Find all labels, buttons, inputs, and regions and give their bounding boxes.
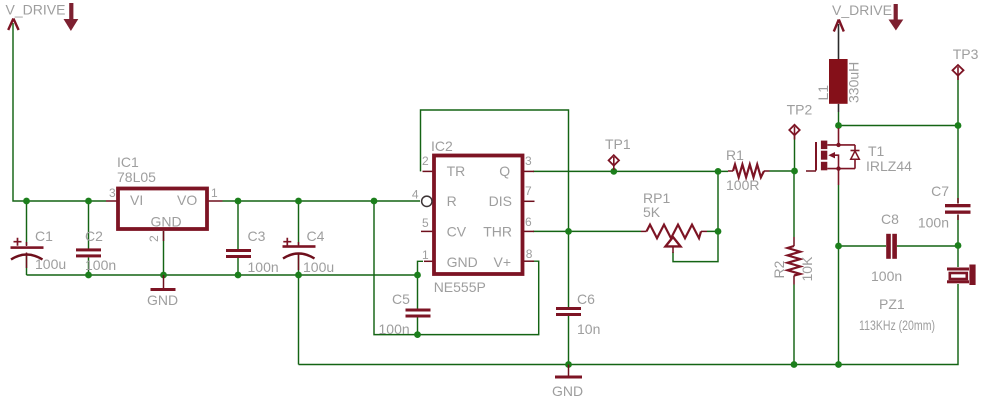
svg-text:GND: GND [447,254,478,270]
svg-text:10n: 10n [577,321,600,337]
capacitor C4 [283,228,335,275]
svg-text:7: 7 [525,184,532,198]
wire R1 to gate node [770,170,795,172]
wire source node to C8 left [839,245,887,247]
voltage regulator IC1 78L05 [106,154,223,242]
supply V_DRIVE right [832,2,892,32]
test point TP1 [605,136,631,170]
svg-text:GND: GND [151,214,182,230]
svg-text:R2: R2 [771,260,787,278]
svg-text:6: 6 [525,215,532,229]
ground symbol GND2 [552,365,583,400]
wire C4 top lead [298,201,300,245]
supply V_DRIVE left [6,2,66,31]
svg-text:V_DRIVE: V_DRIVE [832,2,892,18]
wire THR to C6 top [568,231,570,307]
svg-text:C1: C1 [35,228,53,244]
wire gate node to R2 top [793,171,795,237]
svg-text:TP1: TP1 [605,136,631,152]
inductor L1 [815,24,862,112]
svg-text:T1: T1 [868,143,885,159]
svg-text:DIS: DIS [489,193,512,209]
svg-text:5: 5 [422,216,429,230]
svg-text:4: 4 [412,188,419,202]
svg-text:C7: C7 [931,183,949,199]
wire GND rail [27,274,418,276]
wire 5V to V+ routing [374,201,539,335]
svg-text:1: 1 [211,186,218,200]
wire L1 bottom to drain node [838,112,840,126]
svg-text:C6: C6 [577,291,595,307]
wire V_DRIVE left riser and input rail [13,23,106,201]
svg-text:GND: GND [147,292,178,308]
wire bottom GND rail with right riser to PZ1 [299,284,959,365]
wire IC2 pin1 GND to rail and C5 top [418,261,424,308]
capacitor C3 [226,228,279,275]
svg-text:R1: R1 [726,147,744,163]
svg-text:100n: 100n [248,259,279,275]
svg-text:TP2: TP2 [787,102,813,118]
svg-text:100n: 100n [85,257,116,273]
ground symbol GND1 [147,275,178,308]
wire R2 bottom to GND rail [793,285,795,365]
wire IC1 GND pin to rail [163,231,165,275]
svg-text:V_DRIVE: V_DRIVE [6,2,66,18]
potentiometer RP1 [641,190,707,253]
wire C7 bottom to PZ1 top node [957,215,959,268]
wire Q output net [533,170,728,172]
svg-text:78L05: 78L05 [117,169,156,185]
svg-text:V+: V+ [493,254,511,270]
wire T1 source to GND rail [838,185,840,365]
svg-text:R: R [447,193,457,209]
svg-text:THR: THR [483,224,512,240]
svg-text:C8: C8 [881,211,899,227]
svg-text:100R: 100R [726,177,759,193]
svg-text:TR: TR [447,163,466,179]
wire THR net to RP1 [533,230,641,232]
wire C8 right to PZ1 node [897,245,958,247]
svg-text:2: 2 [422,154,429,168]
svg-text:TP3: TP3 [953,46,979,62]
svg-text:1: 1 [422,248,429,262]
piezo PZ1 [859,265,976,334]
capacitor C5 [379,291,431,337]
svg-text:CV: CV [447,224,467,240]
wire C3 bottom lead [237,258,239,275]
capacitor C6 [556,291,600,337]
wire TR feedback loop [421,110,569,231]
svg-text:GND: GND [552,383,583,399]
wire C2 bottom lead [88,258,90,276]
svg-text:3: 3 [525,154,532,168]
svg-text:C3: C3 [248,228,266,244]
svg-text:100u: 100u [303,259,334,275]
svg-text:100n: 100n [379,321,410,337]
transistor T1 IRLZ44 [806,128,912,185]
wire C4 bottom lead down to bottom GND rail [298,254,300,365]
off-page arrow left [64,3,79,31]
timer IC2 NE555P [412,138,535,295]
test point TP2 [787,102,813,140]
svg-text:330uH: 330uH [846,62,862,103]
svg-text:113KHz (20mm): 113KHz (20mm) [859,317,935,333]
test point TP3 [953,46,979,80]
wire drain node to TP3 column [839,125,959,127]
wire C1 bottom lead [26,254,28,275]
svg-text:VI: VI [130,192,143,208]
svg-text:C4: C4 [307,228,325,244]
svg-text:8: 8 [526,247,533,261]
svg-text:5K: 5K [643,204,661,220]
svg-text:10K: 10K [799,256,815,282]
svg-text:100u: 100u [35,256,66,272]
wire TP2 stem [794,135,796,171]
wire RP1 wiper loop [673,231,718,261]
wire 5V rail right of IC1 [223,200,421,202]
svg-text:100n: 100n [918,215,949,231]
off-page arrow right [889,4,904,31]
wire RP1 right terminal riser [707,171,718,231]
svg-text:VO: VO [177,192,197,208]
svg-text:IC2: IC2 [431,138,453,154]
wire C5 bottom lead [417,318,419,335]
capacitor C7 [918,183,971,231]
svg-text:2: 2 [147,235,161,242]
wire TP1 stem [613,165,615,171]
svg-text:IRLZ44: IRLZ44 [866,158,912,174]
wire C1 top lead [26,201,28,245]
svg-text:Q: Q [499,163,510,179]
capacitor C8 [871,211,902,284]
resistor R2 [771,237,815,285]
resistor R1 [726,147,770,193]
svg-text:IC1: IC1 [117,154,139,170]
svg-text:PZ1: PZ1 [879,296,905,312]
svg-text:3: 3 [109,186,116,200]
wire C2 top lead [88,201,90,249]
wire C6 bottom to GND rail [568,316,570,365]
junction dots [23,198,30,205]
wire C3 top lead [237,201,239,249]
capacitor C2 [76,228,116,273]
capacitor C1 [11,228,67,272]
svg-text:C2: C2 [85,228,103,244]
svg-text:C5: C5 [392,291,410,307]
svg-text:L1: L1 [815,85,831,101]
svg-text:100n: 100n [871,268,902,284]
svg-text:NE555P: NE555P [434,279,486,295]
wire TP3 column upper [957,76,959,204]
